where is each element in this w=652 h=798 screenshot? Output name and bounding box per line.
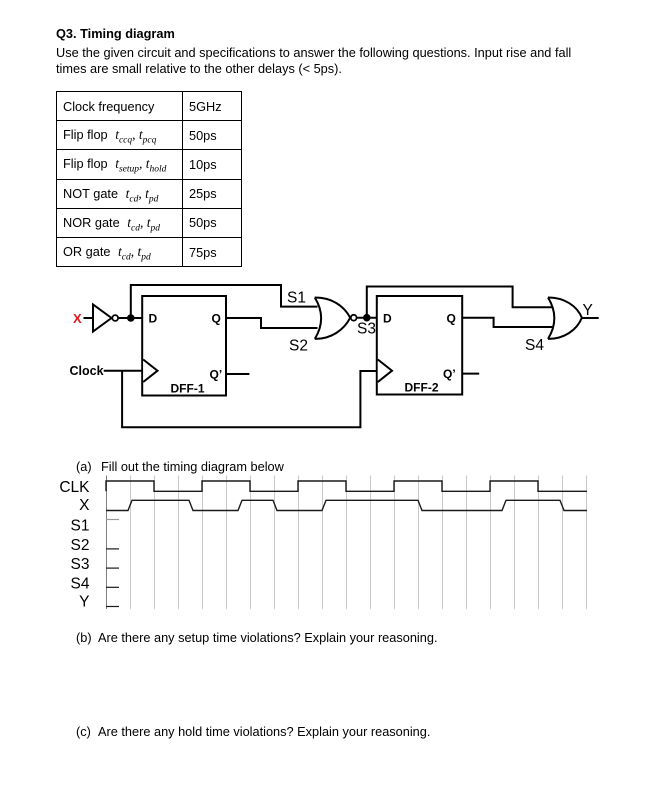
- wire DFF-1 Q to S2 input of NOR gate: [226, 318, 318, 328]
- S2 initial value mark (low): [106, 548, 119, 550]
- svg-text:CLK: CLK: [59, 479, 90, 496]
- NOR gate U2 output bubble: [351, 315, 357, 321]
- timing grid vertical lines: [131, 476, 587, 610]
- S1 initial value mark (high): [106, 519, 119, 521]
- paragraph: [56, 45, 571, 76]
- question (c): [76, 724, 91, 740]
- node S3 junction dot: [363, 314, 371, 322]
- svg-text:S4: S4: [71, 576, 90, 593]
- NOT gate U1 output bubble: [112, 315, 118, 321]
- timing axis line: [106, 476, 108, 610]
- wire node S3 up and over DFF-2 to top input of OR gate: [367, 287, 553, 318]
- Y initial value mark (low): [106, 606, 119, 608]
- title: [56, 26, 175, 42]
- NOT gate U1 (inverter): [93, 305, 112, 332]
- wire inverter output to D of DFF-1: [119, 317, 142, 319]
- DFF-1 clock triangle: [143, 360, 157, 383]
- wire DFF-2 Q' stub: [462, 373, 479, 375]
- X waveform: [106, 500, 587, 510]
- wire NOR output to D of DFF-2: [357, 317, 377, 319]
- wire DFF-2 Q to S4 input of OR gate: [462, 318, 553, 327]
- question (a): [76, 459, 92, 475]
- svg-text:X: X: [79, 497, 90, 514]
- CLK waveform: [106, 481, 587, 491]
- wire X to inverter: [84, 317, 94, 319]
- question (b): [76, 630, 92, 646]
- spec table: [56, 91, 242, 267]
- wire clock branch down and along bottom to DFF-2 clock pin: [122, 371, 377, 428]
- NOR gate U2 body: [315, 297, 350, 338]
- wire node A up and over DFF-1 to S1 input of NOR gate: [131, 285, 318, 318]
- flip-flop DFF-2 box: [377, 296, 462, 395]
- svg-text:S2: S2: [71, 537, 90, 554]
- OR gate U3 body: [548, 297, 582, 338]
- flip-flop DFF-1 box: [142, 296, 226, 396]
- svg-text:Y: Y: [79, 593, 89, 610]
- node A junction dot (inverter output): [127, 314, 135, 322]
- svg-text:S3: S3: [71, 556, 90, 573]
- wire DFF-1 Q' stub: [226, 373, 249, 375]
- S3 initial value mark (low): [106, 567, 119, 569]
- wire OR gate output Y: [582, 317, 599, 319]
- wire Clock to DFF-1 clock pin: [104, 370, 142, 372]
- S4 initial value mark (low): [106, 586, 119, 588]
- DFF-2 clock triangle: [378, 360, 392, 383]
- svg-text:S1: S1: [71, 518, 90, 535]
